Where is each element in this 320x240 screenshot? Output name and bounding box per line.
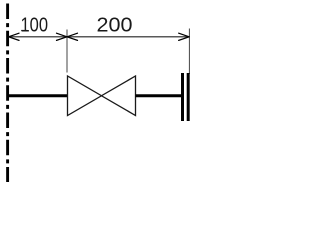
valve V1 (gate valve bowtie) xyxy=(68,76,136,116)
double arrow at x=67 xyxy=(57,33,78,40)
arrow right (tip at flange extension) xyxy=(179,33,190,40)
flange bar 2 xyxy=(187,73,190,121)
pipe right xyxy=(136,94,183,97)
extension line at valve left xyxy=(66,30,68,73)
serif foot of digit 1 in 100 xyxy=(21,30,27,31)
arrow left (tip at centerline) xyxy=(9,33,20,40)
svg-text:100: 100 xyxy=(21,13,49,36)
flange bar 1 xyxy=(181,73,184,121)
svg-text:200: 200 xyxy=(97,13,133,36)
centerline (dash-dot) xyxy=(6,4,9,183)
dimension line xyxy=(8,36,189,38)
extension line at flange xyxy=(188,29,190,75)
pipe left xyxy=(8,94,68,97)
